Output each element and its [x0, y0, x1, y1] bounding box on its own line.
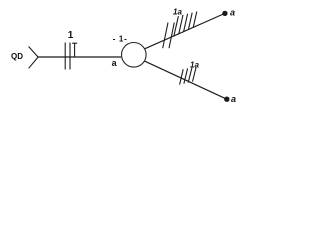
- wire (horizontal main wire): [38, 56, 121, 58]
- svg-text:a: a: [112, 58, 118, 68]
- svg-text:a: a: [231, 94, 236, 104]
- conductor tick 3 of 5 (upper branch): [184, 14, 188, 32]
- capacitor plate long tick 2 (upper branch): [169, 23, 174, 49]
- svg-text:1: 1: [68, 30, 74, 41]
- wire (upper branch to terminal a): [145, 13, 225, 48]
- wedge (line concentrator symbol): [29, 47, 38, 69]
- conductor tick 2 of 4 (lower branch): [184, 68, 188, 83]
- contact T symbol: [72, 43, 77, 57]
- selector circle -1-: [122, 43, 147, 68]
- conductor tick 4 of 4 (lower branch): [193, 67, 197, 82]
- terminal dot a (upper): [222, 11, 227, 16]
- svg-text:-: -: [113, 34, 116, 43]
- conductor tick 4 of 5 (upper branch): [188, 13, 192, 30]
- terminal dot a (lower): [224, 97, 229, 102]
- wire (lower branch to terminal a): [145, 61, 227, 99]
- conductor tick 3 of 4 (lower branch): [188, 68, 192, 83]
- conductor tick 2 of 5 (upper branch): [179, 15, 183, 34]
- conductor tick 1 of 5 (upper branch): [174, 16, 179, 36]
- conductor tick 1 of 4 (lower branch): [180, 69, 184, 84]
- svg-text:a: a: [230, 7, 235, 17]
- svg-text:-: -: [124, 34, 127, 43]
- conductor tick 5 of 5 (upper branch): [193, 12, 197, 28]
- svg-text:1a: 1a: [173, 7, 182, 16]
- capacitor plate long tick 1 (upper branch): [163, 23, 168, 49]
- svg-text:QD: QD: [11, 52, 23, 61]
- svg-text:1a: 1a: [190, 61, 199, 70]
- capacitor 1 plate A: [64, 43, 66, 70]
- capacitor 1 plate B: [69, 43, 71, 70]
